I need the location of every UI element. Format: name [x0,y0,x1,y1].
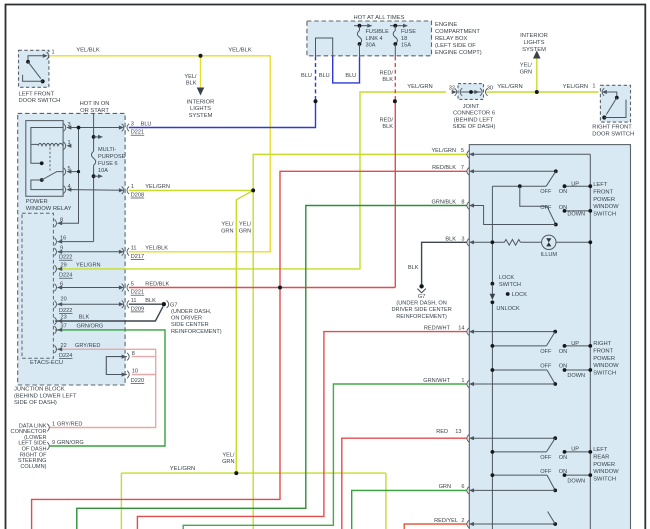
svg-text:30: 30 [487,86,493,92]
svg-text:CONNECTOR 6: CONNECTOR 6 [453,111,495,117]
svg-text:DRIVER SIDE CENTER: DRIVER SIDE CENTER [391,307,451,313]
bus: right vertical feed [589,154,591,529]
svg-text:DOWN: DOWN [567,211,585,217]
svg-text:RED/: RED/ [380,70,394,76]
relay switch lever to pin 5 [42,172,63,180]
svg-text:10: 10 [132,369,138,375]
node: splice on YEL/BLK [199,54,203,58]
illumination lamp [542,235,556,249]
svg-text:DOWN: DOWN [567,478,585,484]
svg-text:RED: RED [436,429,448,435]
svg-text:RED/BLK: RED/BLK [432,165,456,171]
switch pin 7 [467,168,469,176]
joint connector 6 pin 30 [480,88,482,96]
left front window switch: UP contact stub [565,185,591,187]
svg-text:BLK: BLK [186,81,197,87]
svg-text:BLK: BLK [382,124,393,130]
wire: internal jog in engine compartment box [316,38,333,56]
svg-text:37: 37 [61,323,67,329]
svg-text:SIDE OF DASH): SIDE OF DASH) [453,124,496,130]
svg-text:RED/YEL: RED/YEL [434,518,458,524]
svg-text:20: 20 [61,296,67,302]
svg-text:1: 1 [68,140,71,146]
svg-text:SWITCH: SWITCH [499,282,521,288]
svg-text:YEL/: YEL/ [221,222,234,228]
node: splice on YEL/GRN top run [535,90,539,94]
left rear window switch: DOWN side [492,474,547,476]
svg-text:D222: D222 [59,308,72,314]
svg-text:ON: ON [559,364,567,370]
left front door switch box [19,50,49,87]
svg-text:BLK: BLK [445,236,456,242]
svg-text:YEL/: YEL/ [239,222,252,228]
connector D221 pin5 (RED/BLK) [119,285,124,289]
ETACS pin 8 [54,219,56,227]
left front door switch pin 1 [47,52,49,60]
svg-text:ON DRIVER: ON DRIVER [171,316,202,322]
bus HOT AT ALL TIMES with taps [354,25,370,27]
bus: common vertical [491,186,493,284]
svg-text:LIGHTS: LIGHTS [524,40,545,46]
svg-text:D224: D224 [59,353,72,359]
switch pin 13 [467,434,469,442]
wire: ETACS pin6 to edge connector D221 [58,287,123,289]
left front window switch: lever UP [546,171,556,186]
svg-text:YEL/: YEL/ [520,63,533,69]
link between switch commons [520,186,547,206]
svg-text:FUSIBLE: FUSIBLE [366,29,390,35]
svg-text:ON: ON [559,455,567,461]
svg-text:INTERIOR: INTERIOR [187,99,215,105]
svg-text:D209: D209 [131,306,144,312]
svg-text:WINDOW: WINDOW [593,469,619,475]
svg-text:3: 3 [68,122,71,128]
wire: pin1 row [471,383,555,385]
svg-text:GRN: GRN [222,459,234,465]
svg-text:BLU: BLU [345,73,356,79]
wire YEL/GRN: ETACS pin29 to joint connector and right door switch [55,92,446,269]
svg-text:YEL/BLK: YEL/BLK [145,246,168,252]
wire: pin5 feed bus [471,153,590,155]
svg-text:1: 1 [52,50,55,56]
svg-text:11: 11 [131,298,137,304]
svg-text:LEFT: LEFT [593,182,608,188]
svg-text:ON: ON [559,349,567,355]
svg-text:13: 13 [455,429,461,435]
wire: relay pin4 to junction edge D208 [71,189,123,192]
wire YEL/GRN bottom run [121,472,386,474]
svg-text:BLU: BLU [319,73,330,79]
power window switch assembly box (shaded) [469,145,630,529]
svg-text:LINK 4: LINK 4 [366,36,383,42]
svg-text:YEL/: YEL/ [222,452,235,458]
wire: relay pin3 to junction edge D221 [71,127,123,129]
multi-purpose fuse 6 [92,151,96,165]
svg-text:RED/: RED/ [380,117,394,123]
svg-text:RED/WHT: RED/WHT [424,326,451,332]
wire: ETACS pin20 to edge connector D209 [58,303,123,305]
svg-text:YEL/GRN: YEL/GRN [431,148,456,154]
svg-text:JOINT: JOINT [463,104,480,110]
svg-text:DOOR SWITCH: DOOR SWITCH [592,131,634,137]
svg-text:YEL/: YEL/ [184,74,197,80]
svg-text:30A: 30A [366,42,376,48]
engine compartment relay box (shaded) [307,21,432,56]
svg-text:POWER: POWER [593,356,615,362]
wire YEL/GRN: relay D208 output net [129,189,253,191]
wire RED/YEL: to switch pin 2 [404,524,466,529]
svg-text:RED/BLK: RED/BLK [145,281,169,287]
wire: junction block internal link D220 pin8-pin10 [106,357,127,375]
switch pin 3 [467,239,469,247]
relay mechanical link (dashed) [49,148,51,171]
svg-text:GRN/WHT: GRN/WHT [423,378,450,384]
svg-text:3: 3 [131,121,134,127]
svg-text:(BEHIND LOWER LEFT: (BEHIND LOWER LEFT [14,393,77,399]
svg-text:ON: ON [559,469,567,475]
svg-text:D220: D220 [131,378,144,384]
wire: relay pin5 branch down to ETACS pin8 [71,171,79,173]
relay coil [31,143,38,145]
svg-text:LEFT FRONT: LEFT FRONT [19,91,55,97]
svg-text:FRONT: FRONT [593,190,613,196]
svg-text:16: 16 [60,236,66,242]
wire GRN/ORG: ETACS pin37 to data link connector [50,330,165,446]
svg-text:9: 9 [52,440,55,446]
svg-text:8: 8 [461,200,464,206]
svg-text:(UNDER DASH, ON: (UNDER DASH, ON [396,301,446,307]
svg-text:GRY/RED: GRY/RED [57,422,82,428]
wire GRN/BLK: to switch pin 8 [77,206,467,529]
svg-text:29: 29 [61,263,67,269]
svg-text:LOCK: LOCK [499,275,515,281]
svg-text:WINDOW RELAY: WINDOW RELAY [26,206,72,212]
wire YEL/BLK branch to interior lights system (left) [200,56,202,88]
svg-text:(BEHIND LEFT: (BEHIND LEFT [454,117,494,123]
svg-text:UP: UP [571,447,579,453]
svg-text:LIGHTS: LIGHTS [190,106,211,112]
svg-text:8: 8 [132,351,135,357]
wire: pin8 jog to DOWN contact [471,206,556,225]
svg-text:2: 2 [461,518,464,524]
svg-text:D208: D208 [131,192,144,198]
svg-text:ON: ON [559,189,567,195]
svg-text:OR START: OR START [80,108,109,114]
relay pins 3,1,5,4 [64,124,66,132]
svg-text:D217: D217 [131,254,144,260]
svg-text:GRN: GRN [520,69,532,75]
ETACS pin 37 [54,326,56,334]
data link pin 9 [47,442,49,450]
left front window switch: pin7 wire and contact [471,170,556,172]
svg-text:8: 8 [60,217,63,223]
svg-text:YEL/GRN: YEL/GRN [407,84,432,90]
wire YEL/GRN branch to interior lights system (right) [536,58,538,93]
switch pin 14 [467,328,469,336]
right front window switch: DOWN side [492,369,547,371]
svg-text:5: 5 [131,281,134,287]
junction block box (shaded) [18,113,125,385]
wire RED/BLK: horizontal run to junction D221 [129,287,396,289]
svg-text:BLU: BLU [141,121,152,127]
svg-text:ILLUM: ILLUM [541,252,558,258]
svg-text:GRN: GRN [439,484,451,490]
svg-text:23: 23 [61,315,67,321]
svg-text:GRN/BLK: GRN/BLK [431,200,456,206]
svg-text:LEFT: LEFT [593,447,608,453]
lock switch [491,282,495,286]
svg-text:7: 7 [461,165,464,171]
svg-text:BLU: BLU [301,73,312,79]
left front window switch: lever DOWN [547,206,556,224]
illumination lamp circuit: resistor [471,241,504,243]
ground G7 (under dash) [162,302,166,306]
svg-text:LOCK: LOCK [512,292,528,298]
wire RED/WHT: to switch pin 14 [137,332,466,529]
svg-text:YEL/BLK: YEL/BLK [76,47,100,53]
ETACS pin 20 [54,300,56,308]
wire BLU loop below engine compartment box [333,56,360,83]
DOWN contact stub [565,210,591,212]
connector D220 pin 10 [122,372,127,376]
svg-text:DOOR SWITCH: DOOR SWITCH [19,98,61,104]
right front window switch: pin14 wire and contact [471,331,555,333]
svg-text:POWER: POWER [26,199,48,205]
joint connector 6 pin 32 [452,90,457,94]
svg-text:1: 1 [461,378,464,384]
svg-text:OFF: OFF [540,469,552,475]
svg-text:YEL/BLK: YEL/BLK [228,47,252,53]
switch pin 6 [467,487,469,495]
svg-text:5: 5 [461,148,464,154]
power window relay outline [26,121,63,197]
wire BLK: switch pin 3 to ground G7 (right) [422,242,467,284]
switch pin 5 [467,151,469,159]
svg-text:11: 11 [131,246,137,252]
relay pin 3 internal wire [31,128,63,164]
svg-text:D224: D224 [59,273,72,279]
svg-text:ENGINE: ENGINE [435,22,457,28]
connector D208 pin1 (YEL/GRN) [119,188,124,192]
svg-text:PURPOSE: PURPOSE [98,154,126,160]
wire RED: to switch pin 13 [342,438,467,529]
svg-text:14: 14 [458,326,464,332]
wire BLK: ETACS pin23 to ground G7 [55,307,163,321]
feed HOT IN ON OR START [93,113,95,151]
connector D221 pin3 (BLU) [122,127,124,129]
svg-text:POWER: POWER [593,197,615,203]
joint connector 6 box [458,84,484,100]
svg-text:SWITCH: SWITCH [593,476,616,482]
svg-text:YEL/GRN: YEL/GRN [145,184,170,190]
node: RED/BLK splice [393,99,397,103]
svg-text:ENGINE COMPT): ENGINE COMPT) [435,50,482,56]
svg-text:YEL/GRN: YEL/GRN [497,84,522,90]
svg-text:(LEFT SIDE OF: (LEFT SIDE OF [435,43,476,49]
svg-text:YEL/GRN: YEL/GRN [170,466,195,472]
svg-text:32: 32 [449,86,455,92]
relay movable contact / pivot [40,178,44,182]
right front door switch box [600,85,630,122]
svg-text:WINDOW: WINDOW [593,204,619,210]
relay fixed contact [40,161,44,165]
wire RED/BLK: fuse 18 feed [394,56,396,101]
svg-text:SIDE CENTER: SIDE CENTER [171,322,209,328]
svg-text:3: 3 [461,236,464,242]
svg-text:GRN/ORG: GRN/ORG [57,440,84,446]
svg-text:HOT IN ON: HOT IN ON [80,101,110,107]
svg-text:1: 1 [52,422,55,428]
svg-text:RIGHT: RIGHT [593,341,611,347]
connector D217 pin11 (YEL/BLK) [119,250,124,254]
svg-text:5: 5 [68,166,71,172]
svg-text:GRY/RED: GRY/RED [75,343,100,349]
left rear window switch: pin13 wire and contact [471,437,555,439]
svg-text:FRONT: FRONT [593,349,613,355]
switch pin 2 [467,520,469,528]
wire: ETACS pin9 to edge connector D217 [58,251,123,253]
connector D209 pin11 (BLK) [119,302,124,306]
node: YEL/GRN splice (bottom run) [234,471,238,475]
node: RED/BLK 4-way splice [278,286,282,290]
svg-text:22: 22 [61,343,67,349]
node: YEL/GRN splice (D208 branch) [251,188,255,192]
svg-text:G7: G7 [170,302,177,308]
node: BLU splice [314,99,318,103]
switch pin 1 [467,380,469,388]
svg-text:JUNCTION BLOCK: JUNCTION BLOCK [14,387,65,393]
svg-text:6: 6 [461,484,464,490]
svg-text:REINFORCEMENT): REINFORCEMENT) [171,329,222,335]
svg-text:D221: D221 [131,130,144,136]
svg-text:REAR: REAR [593,455,609,461]
wire BLK: junction D209 to ground G7 [129,303,162,305]
wire GRN/WHT: to switch pin 1 [183,384,466,529]
svg-text:BLK: BLK [79,315,90,321]
svg-text:MULTI-: MULTI- [98,147,116,153]
wire RED/BLK: branch down to bottom left [32,288,280,529]
svg-text:1: 1 [592,83,595,89]
ETACS pin 16 [54,238,56,246]
svg-text:OFF: OFF [540,189,552,195]
left front window switch: common [492,185,546,187]
wire BLU: fusible link to power window relay [315,56,317,101]
connector D220 pin 8 [122,355,127,359]
wire: pin2 row (right rear switch, cut off) [471,523,555,525]
svg-text:WINDOW: WINDOW [593,363,619,369]
ETACS-ECU dashed box [22,213,53,358]
svg-text:10A: 10A [98,168,108,174]
svg-text:UNLOCK: UNLOCK [496,306,520,312]
fusible link 4 [359,26,361,31]
svg-text:18: 18 [401,36,407,42]
ETACS pin 29 [54,265,56,273]
svg-text:ON: ON [559,205,567,211]
svg-text:SIDE OF DASH): SIDE OF DASH) [14,400,57,406]
svg-text:COMPARTMENT: COMPARTMENT [435,29,480,35]
svg-text:OFF: OFF [540,455,552,461]
svg-text:OFF: OFF [540,205,552,211]
svg-text:FUSE: FUSE [401,29,416,35]
svg-text:SWITCH: SWITCH [593,370,616,376]
svg-text:1: 1 [131,184,134,190]
svg-text:UP: UP [571,341,579,347]
svg-text:YEL/GRN: YEL/GRN [76,263,101,269]
svg-text:OFF: OFF [540,349,552,355]
svg-text:RELAY BOX: RELAY BOX [435,36,467,42]
ETACS pin 9 [54,248,56,256]
svg-text:SYSTEM: SYSTEM [189,113,213,119]
left front door switch internals [28,56,47,61]
ETACS pin 22 [54,346,56,354]
svg-text:DOWN: DOWN [567,373,585,379]
svg-text:D221: D221 [131,290,144,296]
fuse 18 [394,26,396,31]
wire RED/BLK: branch up to switch pin 7 [280,171,467,287]
svg-text:REINFORCEMENT): REINFORCEMENT) [396,314,447,320]
svg-text:(UNDER DASH,: (UNDER DASH, [171,309,212,315]
wire: pin6 row [471,489,555,491]
ETACS pin 6 [54,284,56,292]
svg-text:FUSE 6: FUSE 6 [98,161,118,167]
wire GRN: to switch pin 6 [352,490,467,529]
svg-text:RIGHT FRONT: RIGHT FRONT [592,125,632,131]
right front door switch pin 1 [602,90,607,94]
svg-text:15A: 15A [401,42,411,48]
svg-text:ETACS-ECU: ETACS-ECU [30,360,63,366]
svg-text:OFF: OFF [540,364,552,370]
ground G7 symbol (right) [419,284,423,288]
svg-text:UP: UP [571,182,579,188]
svg-text:COLUMN): COLUMN) [20,464,46,470]
svg-text:BLK: BLK [145,298,156,304]
svg-text:INTERIOR: INTERIOR [520,33,548,39]
svg-text:GRN: GRN [221,228,233,234]
ETACS pin 23 [54,317,56,325]
svg-text:SYSTEM: SYSTEM [522,47,546,53]
svg-text:YEL/GRN: YEL/GRN [563,84,588,90]
joint connector 6 internal wire [460,91,480,93]
svg-text:POWER: POWER [593,462,615,468]
svg-text:BLK: BLK [382,77,393,83]
switch pin 8 [467,202,469,210]
svg-text:HOT AT ALL TIMES: HOT AT ALL TIMES [354,15,405,21]
svg-text:GRN: GRN [239,228,251,234]
right front door switch internals [603,92,616,96]
svg-text:4: 4 [68,184,71,190]
svg-text:BLK: BLK [408,265,419,271]
wire YEL/BLK: left front door switch to junction D217 [50,56,270,252]
svg-text:SWITCH: SWITCH [593,211,616,217]
svg-text:GRN/ORG: GRN/ORG [77,323,104,329]
data link pin 1 [47,424,49,432]
svg-text:9: 9 [60,246,63,252]
wire GRY/RED: ETACS pin22 via D220 to data link connector [50,349,156,427]
svg-text:D222: D222 [59,255,72,261]
wire: fuse 6 to ETACS pin 16 [58,241,94,243]
svg-text:6: 6 [60,281,63,287]
svg-text:G7: G7 [418,294,425,300]
